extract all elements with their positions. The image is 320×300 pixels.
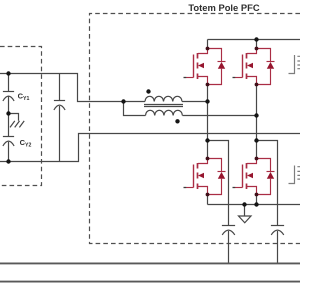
node choke input <box>121 99 125 103</box>
wire ground lead <box>244 205 246 217</box>
wire parasitic cap2 branch <box>257 141 278 226</box>
node ground tap <box>242 202 246 206</box>
wire DC- source rail <box>208 204 301 206</box>
wire bottom rail AC neutral <box>0 134 300 162</box>
node cap1 tap <box>205 138 209 142</box>
chassis ground (hatched) <box>10 121 24 128</box>
wires black <box>0 40 300 263</box>
svg-text:Totem Pole PFC: Totem Pole PFC <box>188 2 259 13</box>
node CY1 top <box>6 71 10 75</box>
node cap2 tap <box>254 138 258 142</box>
wire CY2 bottom <box>8 142 10 162</box>
phase-2 MOSFET partial (top, cut off) <box>289 55 301 74</box>
node CY2 bottom <box>6 159 10 163</box>
parasitic capacitor C1 <box>222 226 235 235</box>
wire top rail AC line <box>0 74 145 102</box>
wire parasitic cap1 to chassis <box>228 231 230 263</box>
wire leg1 source to rail <box>207 195 209 205</box>
EMI filter box (left dashed) <box>0 47 42 186</box>
common-mode choke bottom winding <box>146 110 183 115</box>
wire CY1 to CY2 <box>8 97 10 137</box>
svg-text:CY1: CY1 <box>18 91 30 102</box>
wire parasitic cap1 branch <box>208 141 229 226</box>
MOSFET Q1 (top left) <box>186 49 226 85</box>
MOSFET Q4 (bottom right) <box>235 159 275 195</box>
wire X-cap bottom <box>59 106 61 162</box>
wire choke input branch <box>124 102 146 116</box>
node SW2 <box>254 113 258 117</box>
choke core <box>144 105 183 107</box>
wire leg2 switch node vertical <box>256 85 258 159</box>
wire leg1 switch node vertical <box>207 85 209 159</box>
node leg2 source <box>254 202 258 206</box>
wire chassis ground lead <box>9 114 19 121</box>
node DC+ <box>254 37 258 41</box>
wire choke top output to node SW1 <box>182 101 208 103</box>
wire choke bottom output to node SW2 <box>183 115 257 117</box>
common-mode choke top winding <box>145 96 182 101</box>
MOSFET Q3 (bottom left) <box>186 159 226 195</box>
capacitor CY1 <box>3 92 14 102</box>
wire leg2 source to rail <box>256 195 258 205</box>
capacitor CY2 <box>3 137 14 147</box>
chassis bus bar 2 <box>0 281 300 283</box>
wire leg2 drain drop <box>256 40 258 49</box>
wire CY1 top <box>8 74 10 92</box>
wire leg1 drain drop <box>207 40 209 49</box>
Totem Pole PFC box (dashed) <box>90 14 301 244</box>
node SW1 <box>205 99 209 103</box>
polarity dot bottom winding <box>175 119 179 123</box>
capacitor X-cap <box>54 101 65 111</box>
wire parasitic cap2 to chassis <box>277 231 279 263</box>
wire X-cap top <box>59 74 61 101</box>
parasitic capacitor C2 <box>271 226 284 235</box>
MOSFET Q2 (top right) <box>235 49 275 85</box>
polarity dot top winding <box>146 89 150 93</box>
node CY mid <box>6 111 10 115</box>
power ground (open triangle) <box>239 216 252 223</box>
wire DC+ rail <box>208 39 301 41</box>
phase-2 MOSFET partial (bottom, cut off) <box>289 166 301 184</box>
chassis bus bar 1 <box>0 262 300 264</box>
svg-text:CY2: CY2 <box>20 138 32 149</box>
